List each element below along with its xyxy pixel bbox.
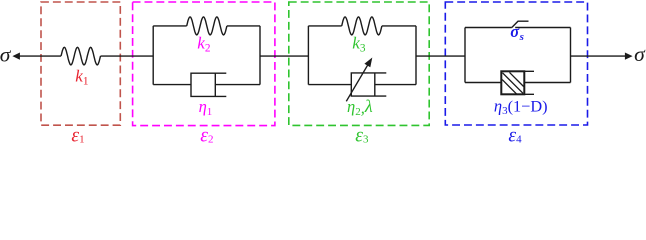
svg-text:σs: σs bbox=[510, 22, 524, 43]
svg-text:ε2: ε2 bbox=[200, 125, 213, 144]
svg-text:k2: k2 bbox=[197, 34, 211, 55]
svg-text:η3(1−D): η3(1−D) bbox=[494, 97, 548, 117]
svg-text:η2,λ: η2,λ bbox=[347, 96, 373, 118]
svg-text:k1: k1 bbox=[75, 67, 88, 88]
svg-text:σ: σ bbox=[634, 42, 646, 66]
svg-text:ε1: ε1 bbox=[71, 125, 84, 144]
svg-text:ε3: ε3 bbox=[355, 125, 369, 144]
svg-text:η1: η1 bbox=[199, 97, 213, 118]
svg-text:ε4: ε4 bbox=[508, 125, 522, 144]
svg-text:σ: σ bbox=[0, 42, 12, 66]
svg-text:k3: k3 bbox=[352, 34, 366, 55]
